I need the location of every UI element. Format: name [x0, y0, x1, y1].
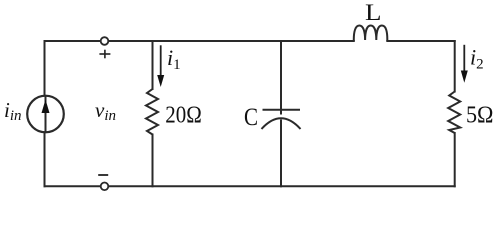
resistor R 5ohm: [448, 92, 460, 134]
inductor L: [354, 26, 388, 42]
terminal node bottom: [101, 183, 109, 191]
wire top rail left segment: [45, 40, 101, 42]
svg-text:20Ω: 20Ω: [165, 103, 202, 129]
resistor R 20ohm: [146, 89, 158, 135]
minus sign: [98, 174, 108, 176]
svg-text:L: L: [365, 0, 382, 25]
wire 20ohm branch bottom: [152, 135, 154, 187]
svg-text:C: C: [244, 104, 258, 131]
terminal node top: [101, 37, 109, 45]
wire capacitor branch top: [280, 41, 282, 114]
wire 20ohm branch top: [152, 41, 154, 89]
wire left branch: [44, 41, 46, 186]
wire bottom rail right segment: [108, 185, 454, 187]
wire top rail middle segment: [108, 40, 353, 42]
wire right branch bottom: [454, 133, 456, 186]
wire right branch top: [454, 41, 456, 92]
wire capacitor branch bottom: [280, 121, 282, 187]
capacitor C: [262, 110, 301, 129]
wire top rail right segment: [387, 40, 454, 42]
current arrow i2: [461, 45, 468, 83]
wire bottom rail left segment: [45, 185, 101, 187]
svg-text:5Ω: 5Ω: [466, 103, 494, 129]
current arrow i1: [157, 45, 164, 87]
current source iin: [27, 96, 64, 133]
plus sign: [99, 50, 110, 59]
